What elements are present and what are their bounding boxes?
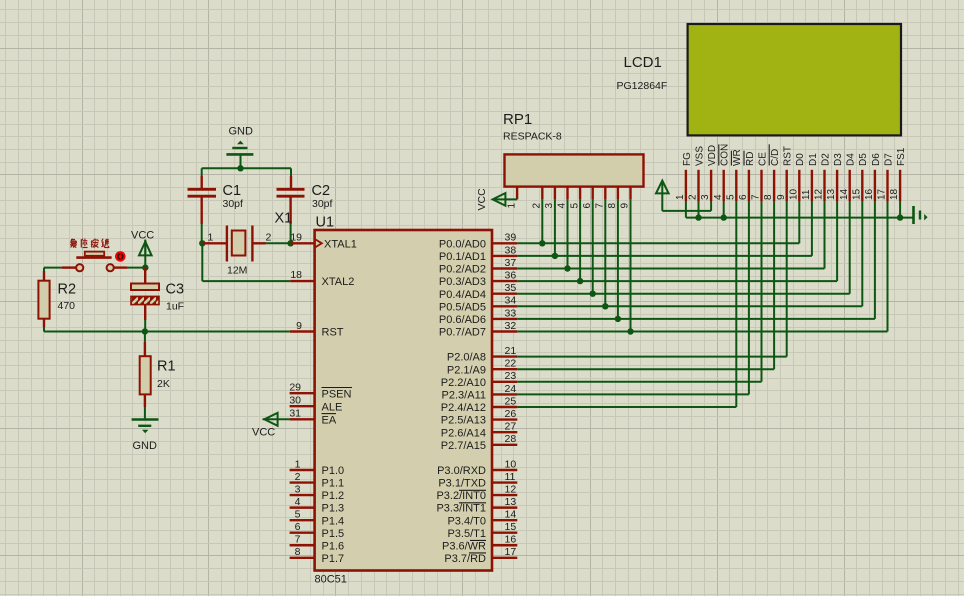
svg-text:5: 5: [725, 194, 736, 200]
svg-text:GND: GND: [229, 126, 254, 138]
svg-text:VCC: VCC: [131, 230, 154, 242]
wire P2.0-LCD: [517, 356, 786, 358]
node RP1-3/P0.1: [552, 253, 558, 259]
wire X1 pin1: [202, 242, 227, 244]
svg-text:16: 16: [864, 188, 875, 200]
svg-text:P2.6/A14: P2.6/A14: [441, 427, 486, 439]
LCD display LCD1 screen: [688, 24, 901, 135]
pin P1.6 (7): [290, 544, 315, 546]
power VCC arrow (EA): [263, 418, 290, 420]
node RST junction: [142, 328, 148, 334]
pin P2.6/A14 (27): [492, 431, 517, 433]
svg-text:12: 12: [814, 188, 825, 200]
svg-text:9: 9: [620, 203, 631, 209]
pin P2.3/A11 (24): [492, 393, 517, 395]
svg-text:25: 25: [505, 395, 517, 407]
button pin circle right: [107, 264, 114, 271]
pin P2.1/A9 (22): [492, 368, 517, 370]
svg-text:10: 10: [505, 458, 517, 470]
svg-text:P2.1/A9: P2.1/A9: [447, 364, 486, 376]
power VCC symbol (reset circuit): [144, 256, 146, 268]
svg-text:P1.1: P1.1: [322, 478, 345, 490]
svg-text:C2: C2: [312, 183, 331, 199]
svg-text:D0: D0: [795, 153, 806, 166]
wire LCD pin18 down: [899, 201, 901, 218]
wire P0.0-D0: [517, 242, 799, 244]
svg-text:6: 6: [738, 194, 749, 200]
svg-text:P0.5/AD5: P0.5/AD5: [439, 301, 486, 313]
svg-text:P3.0/RXD: P3.0/RXD: [437, 465, 486, 477]
resistor-pack RP1 body: [505, 154, 644, 186]
pin P3.2/INT0 (12): [492, 494, 517, 496]
svg-text:34: 34: [505, 295, 517, 307]
pin RP1-4: [566, 187, 568, 200]
pin P1.2 (3): [290, 494, 315, 496]
wire button to VCC node: [127, 267, 145, 269]
wire LCD pin4 down: [723, 201, 725, 218]
svg-text:21: 21: [505, 345, 517, 357]
svg-text:P1.6: P1.6: [322, 540, 345, 552]
power VCC arrow (RP1): [495, 198, 517, 200]
svg-text:36: 36: [505, 270, 517, 282]
svg-text:P0.4/AD4: P0.4/AD4: [439, 289, 486, 301]
pin RP1-7: [604, 187, 606, 200]
wire P2.2-LCD: [517, 381, 761, 383]
svg-text:28: 28: [505, 433, 517, 445]
svg-text:17: 17: [877, 188, 888, 200]
svg-text:470: 470: [58, 300, 76, 312]
pin P0.0/AD0 (39): [492, 242, 517, 244]
svg-text:30pf: 30pf: [223, 198, 244, 210]
svg-text:P0.0/AD0: P0.0/AD0: [439, 238, 486, 250]
svg-text:29: 29: [289, 382, 301, 394]
svg-text:38: 38: [505, 244, 517, 256]
svg-text:FS1: FS1: [896, 147, 907, 166]
svg-text:P3.4/T0: P3.4/T0: [447, 515, 486, 527]
pin P0.5/AD5 (34): [492, 305, 517, 307]
svg-text:13: 13: [826, 188, 837, 200]
pin XTAL1 (19): [291, 242, 315, 244]
svg-text:33: 33: [505, 307, 517, 319]
svg-text:P0.2/AD2: P0.2/AD2: [439, 264, 486, 276]
wire C1-GND-C2 top: [202, 167, 291, 169]
svg-text:P3.1/TXD: P3.1/TXD: [438, 478, 486, 490]
svg-text:6: 6: [582, 203, 593, 209]
svg-text:11: 11: [505, 471, 516, 483]
svg-text:1uF: 1uF: [166, 300, 184, 312]
pin P1.3 (4): [290, 506, 315, 508]
wire LCD ground bus: [686, 217, 914, 219]
power VCC arrow (LCD VDD): [710, 201, 712, 211]
button cap: [85, 252, 104, 256]
svg-text:30pf: 30pf: [312, 198, 333, 210]
pin EA (31): [290, 418, 315, 420]
svg-text:26: 26: [505, 408, 517, 420]
ground (LCD right): [912, 206, 915, 224]
pin P0.1/AD1 (38): [492, 255, 517, 257]
pin P2.2/A10 (23): [492, 381, 517, 383]
svg-text:7: 7: [595, 203, 606, 209]
svg-text:19: 19: [290, 232, 302, 244]
wire X1 pin1 to XTAL2 (vertical): [201, 243, 203, 281]
pin P0.3/AD3 (36): [492, 280, 517, 282]
pin LCD WR (5): [735, 170, 737, 201]
svg-text:13: 13: [505, 496, 517, 508]
pin RST (9): [290, 330, 315, 332]
node RP1-9/P0.7: [627, 328, 633, 334]
svg-text:P3.5/T1: P3.5/T1: [447, 528, 486, 540]
pin P3.5/T1 (15): [492, 532, 517, 534]
pin LCD D3 (13): [836, 170, 838, 201]
pin LCD FS1 (18): [899, 170, 901, 201]
pin LCD VDD (3): [710, 170, 712, 201]
svg-text:17: 17: [505, 546, 517, 558]
pin LCD D1 (11): [811, 170, 813, 201]
svg-text:3: 3: [544, 203, 555, 209]
pin LCD D4 (14): [849, 170, 851, 201]
svg-text:24: 24: [505, 383, 517, 395]
wire P0.5-D5: [517, 305, 862, 307]
button pin circle left: [76, 264, 83, 271]
svg-text:WR: WR: [732, 149, 743, 166]
svg-text:15: 15: [505, 521, 517, 533]
pin P3.3/INT1 (13): [492, 506, 517, 508]
pin P3.1/TXD (11): [492, 481, 517, 483]
pin P1.4 (5): [290, 519, 315, 521]
svg-text:X1: X1: [275, 211, 293, 227]
wire P0.4-D4: [517, 293, 849, 295]
svg-text:RST: RST: [783, 146, 794, 166]
pin PSEN (29): [290, 392, 315, 394]
svg-text:C/D: C/D: [770, 149, 781, 166]
pin LCD RD (6): [748, 170, 750, 201]
ground (below R1): [132, 418, 159, 421]
svg-text:35: 35: [505, 282, 517, 294]
pin P0.2/AD2 (37): [492, 267, 517, 269]
pin P3.7/RD (17): [492, 557, 517, 559]
pin LCD VSS (2): [697, 170, 699, 201]
svg-text:23: 23: [505, 370, 517, 382]
svg-text:CON: CON: [720, 144, 731, 166]
pin P2.0/A8 (21): [492, 355, 517, 357]
pin LCD C/D (8): [773, 170, 775, 201]
button actuator marker: [115, 251, 126, 262]
svg-text:RD: RD: [745, 152, 756, 166]
svg-text:PG12864F: PG12864F: [617, 80, 668, 92]
pin P2.4/A12 (25): [492, 406, 517, 408]
svg-text:P1.7: P1.7: [322, 553, 345, 565]
svg-text:2: 2: [532, 203, 543, 209]
pin RP1-6: [592, 187, 594, 200]
svg-text:EA: EA: [322, 414, 337, 426]
pin P1.5 (6): [290, 532, 315, 534]
svg-text:P0.3/AD3: P0.3/AD3: [439, 276, 486, 288]
pin P0.6/AD6 (33): [492, 318, 517, 320]
svg-text:14: 14: [839, 188, 850, 200]
svg-text:37: 37: [505, 257, 517, 269]
svg-text:1: 1: [295, 458, 301, 470]
svg-text:P2.2/A10: P2.2/A10: [441, 377, 486, 389]
svg-text:5: 5: [295, 509, 301, 521]
wire X1 pin2 to XTAL1: [266, 242, 291, 244]
svg-text:P0.6/AD6: P0.6/AD6: [439, 314, 486, 326]
svg-text:8: 8: [295, 546, 301, 558]
svg-text:P2.7/A15: P2.7/A15: [441, 440, 486, 452]
wire R2-top to button: [44, 267, 62, 269]
svg-text:12: 12: [505, 483, 517, 495]
pin P1.7 (8): [290, 557, 315, 559]
label reset-button (Chinese) 复位按键: [71, 239, 75, 241]
svg-text:2K: 2K: [157, 378, 170, 390]
svg-text:P2.5/A13: P2.5/A13: [441, 415, 486, 427]
svg-text:ALE: ALE: [322, 401, 343, 413]
svg-text:P2.4/A12: P2.4/A12: [441, 402, 486, 414]
svg-text:GND: GND: [133, 440, 158, 452]
pin LCD D5 (15): [861, 170, 863, 201]
wire P2.3-LCD: [517, 393, 749, 395]
pin LCD D2 (12): [823, 170, 825, 201]
wire P0.3-D3: [517, 280, 837, 282]
pin P2.7/A15 (28): [492, 444, 517, 446]
wire P2.1-LCD: [517, 368, 774, 370]
svg-text:8: 8: [763, 194, 774, 200]
svg-text:VCC: VCC: [252, 427, 275, 439]
node RP1-7/P0.5: [602, 303, 608, 309]
svg-text:10: 10: [788, 188, 799, 200]
svg-text:3: 3: [700, 194, 711, 200]
svg-text:18: 18: [889, 188, 900, 200]
svg-text:1: 1: [675, 194, 686, 200]
node RP1-5/P0.3: [577, 278, 583, 284]
svg-text:3: 3: [295, 483, 301, 495]
pin P0.4/AD4 (35): [492, 293, 517, 295]
svg-text:P1.0: P1.0: [322, 465, 345, 477]
svg-text:D3: D3: [833, 153, 844, 166]
wire P0.1-D1: [517, 255, 812, 257]
svg-text:D6: D6: [871, 153, 882, 166]
wire P2.4-LCD: [517, 406, 736, 408]
svg-text:4: 4: [295, 496, 301, 508]
node: VCC/button/C3 junction: [142, 264, 148, 270]
svg-text:8: 8: [607, 203, 618, 209]
svg-text:4: 4: [557, 203, 568, 209]
pin P0.7/AD7 (32): [492, 330, 517, 332]
node GND top junction: [237, 165, 243, 171]
wire RST net: [44, 331, 290, 333]
node LCD pin4 gnd: [721, 214, 727, 220]
pin RP1-1: [516, 187, 518, 200]
wire button left lead: [62, 266, 76, 268]
pin LCD RST (9): [786, 170, 788, 201]
svg-text:P1.3: P1.3: [322, 503, 345, 515]
node X1 pin1 junction: [199, 240, 205, 246]
svg-text:C3: C3: [166, 282, 185, 298]
svg-text:2: 2: [266, 232, 272, 244]
svg-text:D5: D5: [858, 153, 869, 166]
capacitor C1: [201, 168, 203, 176]
svg-text:D1: D1: [808, 153, 819, 166]
svg-text:9: 9: [776, 194, 787, 200]
svg-text:U1: U1: [316, 215, 335, 231]
pin LCD D0 (10): [798, 170, 800, 201]
svg-text:2: 2: [295, 471, 301, 483]
svg-text:7: 7: [295, 534, 301, 546]
resistor R2: [43, 268, 45, 271]
svg-text:P3.3/INT1: P3.3/INT1: [436, 503, 486, 515]
svg-text:P3.2/INT0: P3.2/INT0: [436, 490, 486, 502]
svg-text:FG: FG: [682, 152, 693, 166]
svg-text:CE: CE: [757, 152, 768, 166]
node LCD pin2 gnd: [695, 214, 701, 220]
wire P0.2-D2: [517, 268, 824, 270]
svg-text:27: 27: [505, 421, 517, 433]
pin RP1-2: [541, 187, 543, 200]
svg-text:6: 6: [295, 521, 301, 533]
svg-text:R1: R1: [157, 359, 176, 375]
svg-text:5: 5: [569, 203, 580, 209]
pin LCD D7 (17): [886, 170, 888, 201]
capacitor C3: [144, 268, 146, 284]
svg-text:9: 9: [296, 320, 302, 332]
pin ALE (30): [290, 405, 315, 407]
pin LCD CON (4): [723, 170, 725, 201]
svg-text:VDD: VDD: [707, 145, 718, 166]
svg-text:80C51: 80C51: [315, 574, 347, 586]
svg-text:4: 4: [713, 194, 724, 200]
svg-text:18: 18: [290, 269, 302, 281]
wire P0.6-D6: [517, 318, 875, 320]
svg-text:22: 22: [505, 358, 517, 370]
svg-text:7: 7: [751, 194, 762, 200]
svg-text:P2.3/A11: P2.3/A11: [442, 390, 486, 402]
svg-text:P0.1/AD1: P0.1/AD1: [439, 251, 486, 263]
crystal X1: [226, 226, 228, 262]
svg-text:D7: D7: [883, 153, 894, 166]
microcontroller U1 body: [315, 230, 492, 571]
svg-text:1: 1: [507, 203, 518, 209]
svg-text:D2: D2: [820, 153, 831, 166]
svg-text:32: 32: [505, 320, 517, 332]
wire button right lead: [114, 266, 127, 268]
pin XTAL2 (18): [290, 280, 314, 282]
pin P3.0/RXD (10): [492, 469, 517, 471]
wire P0.7-D7: [517, 331, 887, 333]
pin RP1-5: [579, 187, 581, 200]
svg-text:11: 11: [801, 189, 812, 200]
wire X1 pin1 to XTAL2 (horizontal): [202, 280, 290, 282]
pin P1.0 (1): [290, 469, 315, 471]
svg-text:P1.5: P1.5: [322, 528, 345, 540]
svg-text:P3.6/WR: P3.6/WR: [442, 540, 486, 552]
svg-text:P1.4: P1.4: [322, 515, 345, 527]
svg-text:D4: D4: [846, 153, 857, 166]
capacitor C2: [290, 168, 292, 176]
node RP1-8/P0.6: [615, 316, 621, 322]
svg-text:39: 39: [505, 232, 517, 244]
svg-text:LCD1: LCD1: [624, 54, 662, 71]
svg-text:R2: R2: [58, 282, 77, 298]
svg-text:15: 15: [851, 188, 862, 200]
wire LCD pin1 down: [685, 201, 687, 218]
node RP1-2/P0.0: [539, 240, 545, 246]
node RP1-6/P0.4: [590, 291, 596, 297]
svg-text:VSS: VSS: [694, 146, 705, 166]
svg-text:RESPACK-8: RESPACK-8: [503, 131, 562, 143]
resistor R1: [144, 332, 146, 343]
pin P3.4/T0 (14): [492, 519, 517, 521]
pin LCD FG (1): [685, 170, 687, 201]
wire X1 pin2 lead: [252, 242, 265, 244]
pin P1.1 (2): [290, 481, 315, 483]
svg-text:XTAL1: XTAL1: [324, 239, 357, 251]
svg-text:VCC: VCC: [476, 188, 488, 211]
svg-text:XTAL2: XTAL2: [322, 276, 355, 288]
svg-text:P0.7/AD7: P0.7/AD7: [439, 327, 486, 339]
svg-text:1: 1: [208, 232, 214, 244]
svg-text:16: 16: [505, 534, 517, 546]
pin LCD CE (7): [760, 170, 762, 201]
pin RP1-3: [554, 187, 556, 200]
svg-text:2: 2: [688, 194, 699, 200]
svg-text:30: 30: [289, 395, 301, 407]
pin RP1-9: [629, 187, 631, 200]
svg-text:P1.2: P1.2: [322, 490, 345, 502]
pin RP1-8: [617, 187, 619, 200]
svg-text:RST: RST: [322, 327, 344, 339]
svg-text:31: 31: [289, 408, 301, 420]
svg-text:14: 14: [505, 509, 517, 521]
pin P2.5/A13 (26): [492, 418, 517, 420]
node XTAL1 junction: [287, 240, 293, 246]
node LCD pin18 gnd: [897, 214, 903, 220]
node RP1-4/P0.2: [564, 265, 570, 271]
pin P3.6/WR (16): [492, 544, 517, 546]
wire LCD pin2 down: [698, 201, 700, 218]
svg-text:C1: C1: [223, 183, 242, 199]
svg-text:RP1: RP1: [503, 111, 532, 128]
svg-text:P2.0/A8: P2.0/A8: [447, 352, 486, 364]
svg-text:P3.7/RD: P3.7/RD: [444, 553, 486, 565]
svg-text:PSEN: PSEN: [322, 388, 352, 400]
pin LCD D6 (16): [874, 170, 876, 201]
svg-text:12M: 12M: [227, 265, 247, 277]
